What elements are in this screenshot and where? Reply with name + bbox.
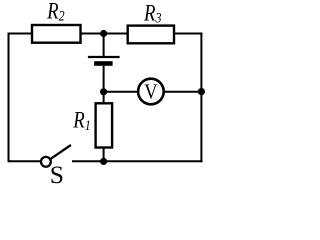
resistor R3	[128, 26, 174, 44]
node: mid junction below battery	[100, 88, 107, 95]
battery: long thin plate	[88, 56, 120, 58]
wire: top node to R3	[104, 33, 129, 35]
wire: mid node to R1	[103, 92, 105, 104]
wire: center vertical from top node to battery	[103, 34, 105, 57]
wire: R2 to top node	[81, 33, 105, 35]
svg-text:V: V	[144, 81, 158, 104]
switch S: open blade	[51, 145, 71, 159]
node: bottom junction	[100, 158, 107, 165]
switch S: pivot circle	[41, 157, 51, 167]
wire: left side vertical	[8, 33, 10, 163]
wire: battery to mid node	[103, 66, 105, 93]
resistor R1 (vertical)	[96, 103, 113, 147]
wire: right side vertical	[200, 33, 202, 163]
wire: voltmeter to right node	[164, 91, 202, 93]
wire: R3 to top-right corner	[174, 33, 202, 35]
wire: mid node to voltmeter	[104, 91, 138, 93]
wire: bottom segment from switch to right corner	[72, 160, 202, 162]
node: top junction	[100, 30, 107, 37]
node: right junction	[198, 88, 205, 95]
voltmeter V: circle body	[138, 79, 164, 105]
battery: short thick plate	[94, 61, 112, 66]
wire: bottom-left segment to switch	[9, 160, 42, 162]
resistor R2	[32, 25, 81, 43]
svg-text:R2: R2	[46, 0, 65, 24]
svg-text:R1: R1	[72, 107, 90, 134]
wire: top-left segment to R2	[9, 33, 34, 35]
svg-text:R3: R3	[143, 0, 162, 26]
svg-text:S: S	[50, 160, 64, 189]
wire: R1 to bottom node	[103, 148, 105, 163]
